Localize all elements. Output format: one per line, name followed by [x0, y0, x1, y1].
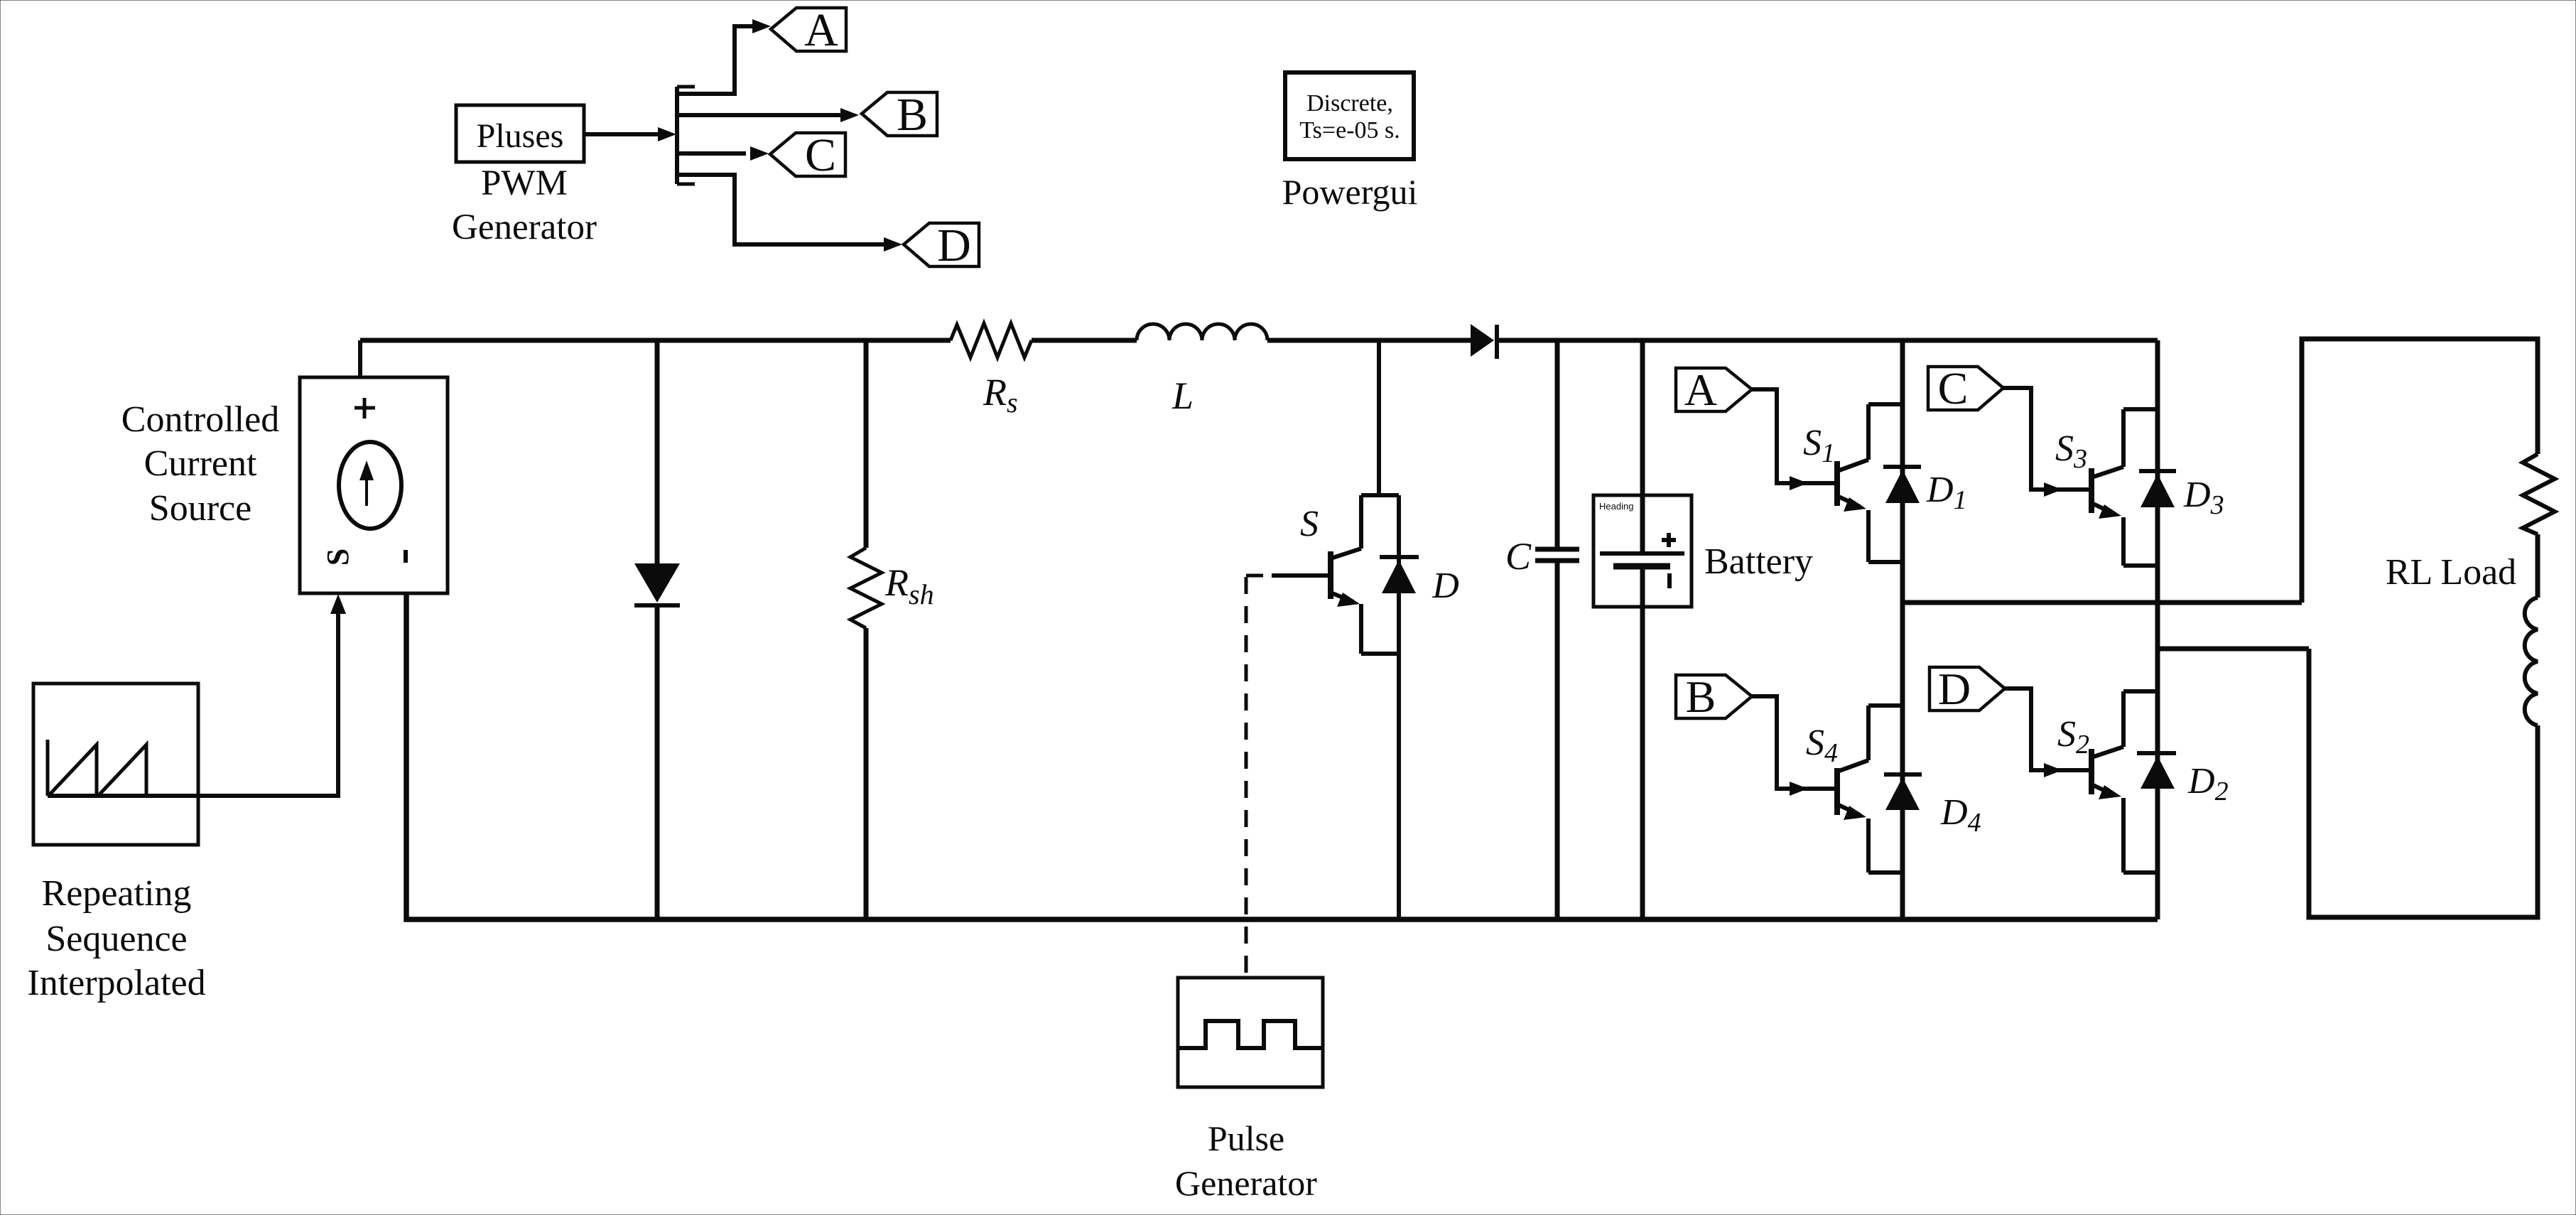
svg-text:B: B — [897, 89, 928, 141]
svg-text:S1: S1 — [1803, 423, 1835, 468]
svg-text:D: D — [937, 220, 971, 271]
svg-text:Rsh: Rsh — [884, 561, 934, 610]
svg-text:Heading: Heading — [1599, 501, 1633, 512]
svg-text:C: C — [1505, 535, 1532, 578]
svg-text:Ts=e-05 s.: Ts=e-05 s. — [1299, 117, 1400, 144]
svg-text:Discrete,: Discrete, — [1306, 90, 1393, 117]
svg-text:D4: D4 — [1940, 792, 1981, 838]
svg-text:D2: D2 — [2187, 761, 2229, 806]
svg-text:A: A — [1684, 364, 1717, 415]
svg-text:RL Load: RL Load — [2386, 552, 2516, 593]
svg-text:Generator: Generator — [452, 207, 597, 247]
svg-text:Controlled: Controlled — [121, 399, 279, 440]
svg-text:Sequence: Sequence — [45, 919, 187, 959]
svg-text:Pulse: Pulse — [1208, 1118, 1284, 1158]
svg-text:A: A — [804, 4, 838, 56]
svg-text:Rs: Rs — [983, 371, 1018, 418]
svg-text:B: B — [1686, 671, 1716, 722]
svg-text:Battery: Battery — [1704, 541, 1813, 582]
svg-text:L: L — [1171, 374, 1194, 417]
svg-text:D1: D1 — [1926, 470, 1967, 515]
svg-text:S4: S4 — [1806, 723, 1838, 768]
svg-text:C: C — [805, 129, 836, 181]
svg-text:Current: Current — [144, 443, 257, 484]
svg-text:D: D — [1432, 566, 1459, 606]
svg-text:Repeating: Repeating — [42, 873, 192, 914]
svg-text:Generator: Generator — [1175, 1163, 1317, 1203]
svg-text:Interpolated: Interpolated — [27, 963, 205, 1003]
svg-text:D: D — [1938, 664, 1971, 714]
svg-text:Powergui: Powergui — [1282, 172, 1418, 212]
svg-text:PWM: PWM — [481, 163, 568, 203]
svg-text:Source: Source — [149, 488, 251, 529]
svg-text:S3: S3 — [2055, 428, 2087, 474]
svg-text:C: C — [1938, 363, 1969, 414]
svg-text:Pluses: Pluses — [477, 117, 564, 155]
svg-text:D3: D3 — [2183, 475, 2224, 520]
svg-text:S: S — [320, 549, 355, 566]
svg-text:S: S — [1300, 504, 1319, 544]
svg-text:S2: S2 — [2057, 714, 2089, 760]
